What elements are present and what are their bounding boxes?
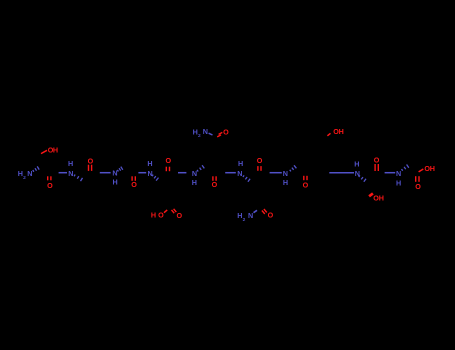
- svg-text:O: O: [223, 127, 229, 136]
- svg-text:2: 2: [198, 133, 201, 139]
- svg-text:N: N: [27, 169, 32, 178]
- svg-text:N: N: [396, 169, 401, 178]
- svg-text:N: N: [147, 169, 152, 178]
- svg-text:H: H: [396, 179, 401, 188]
- svg-text:2: 2: [243, 217, 246, 223]
- svg-text:H: H: [238, 159, 243, 168]
- svg-text:H: H: [354, 160, 359, 169]
- svg-text:H: H: [283, 178, 288, 187]
- svg-text:O: O: [131, 180, 137, 189]
- svg-text:N: N: [203, 127, 208, 136]
- svg-text:N: N: [237, 169, 242, 178]
- svg-text:H: H: [430, 164, 435, 173]
- svg-text:H: H: [112, 177, 117, 186]
- svg-text:O: O: [212, 180, 218, 189]
- svg-text:N: N: [248, 211, 253, 220]
- svg-text:O: O: [47, 181, 53, 190]
- svg-text:O: O: [415, 182, 421, 191]
- svg-text:O: O: [374, 155, 380, 164]
- svg-text:N: N: [283, 169, 288, 178]
- svg-text:H: H: [147, 159, 152, 168]
- svg-text:H: H: [68, 159, 73, 168]
- svg-text:O: O: [257, 156, 263, 165]
- svg-text:N: N: [355, 169, 360, 178]
- svg-text:N: N: [68, 169, 73, 178]
- svg-text:H: H: [192, 178, 197, 187]
- svg-text:N: N: [112, 169, 117, 178]
- svg-text:N: N: [192, 169, 197, 178]
- svg-text:O: O: [158, 211, 164, 220]
- svg-text:H: H: [151, 211, 156, 220]
- svg-text:H: H: [379, 194, 384, 203]
- svg-text:H: H: [339, 127, 344, 136]
- svg-text:O: O: [166, 156, 172, 165]
- svg-text:O: O: [303, 181, 309, 190]
- svg-text:O: O: [177, 211, 183, 220]
- svg-text:O: O: [268, 211, 274, 220]
- svg-text:O: O: [88, 156, 94, 165]
- svg-text:2: 2: [23, 175, 26, 181]
- svg-text:H: H: [53, 146, 58, 155]
